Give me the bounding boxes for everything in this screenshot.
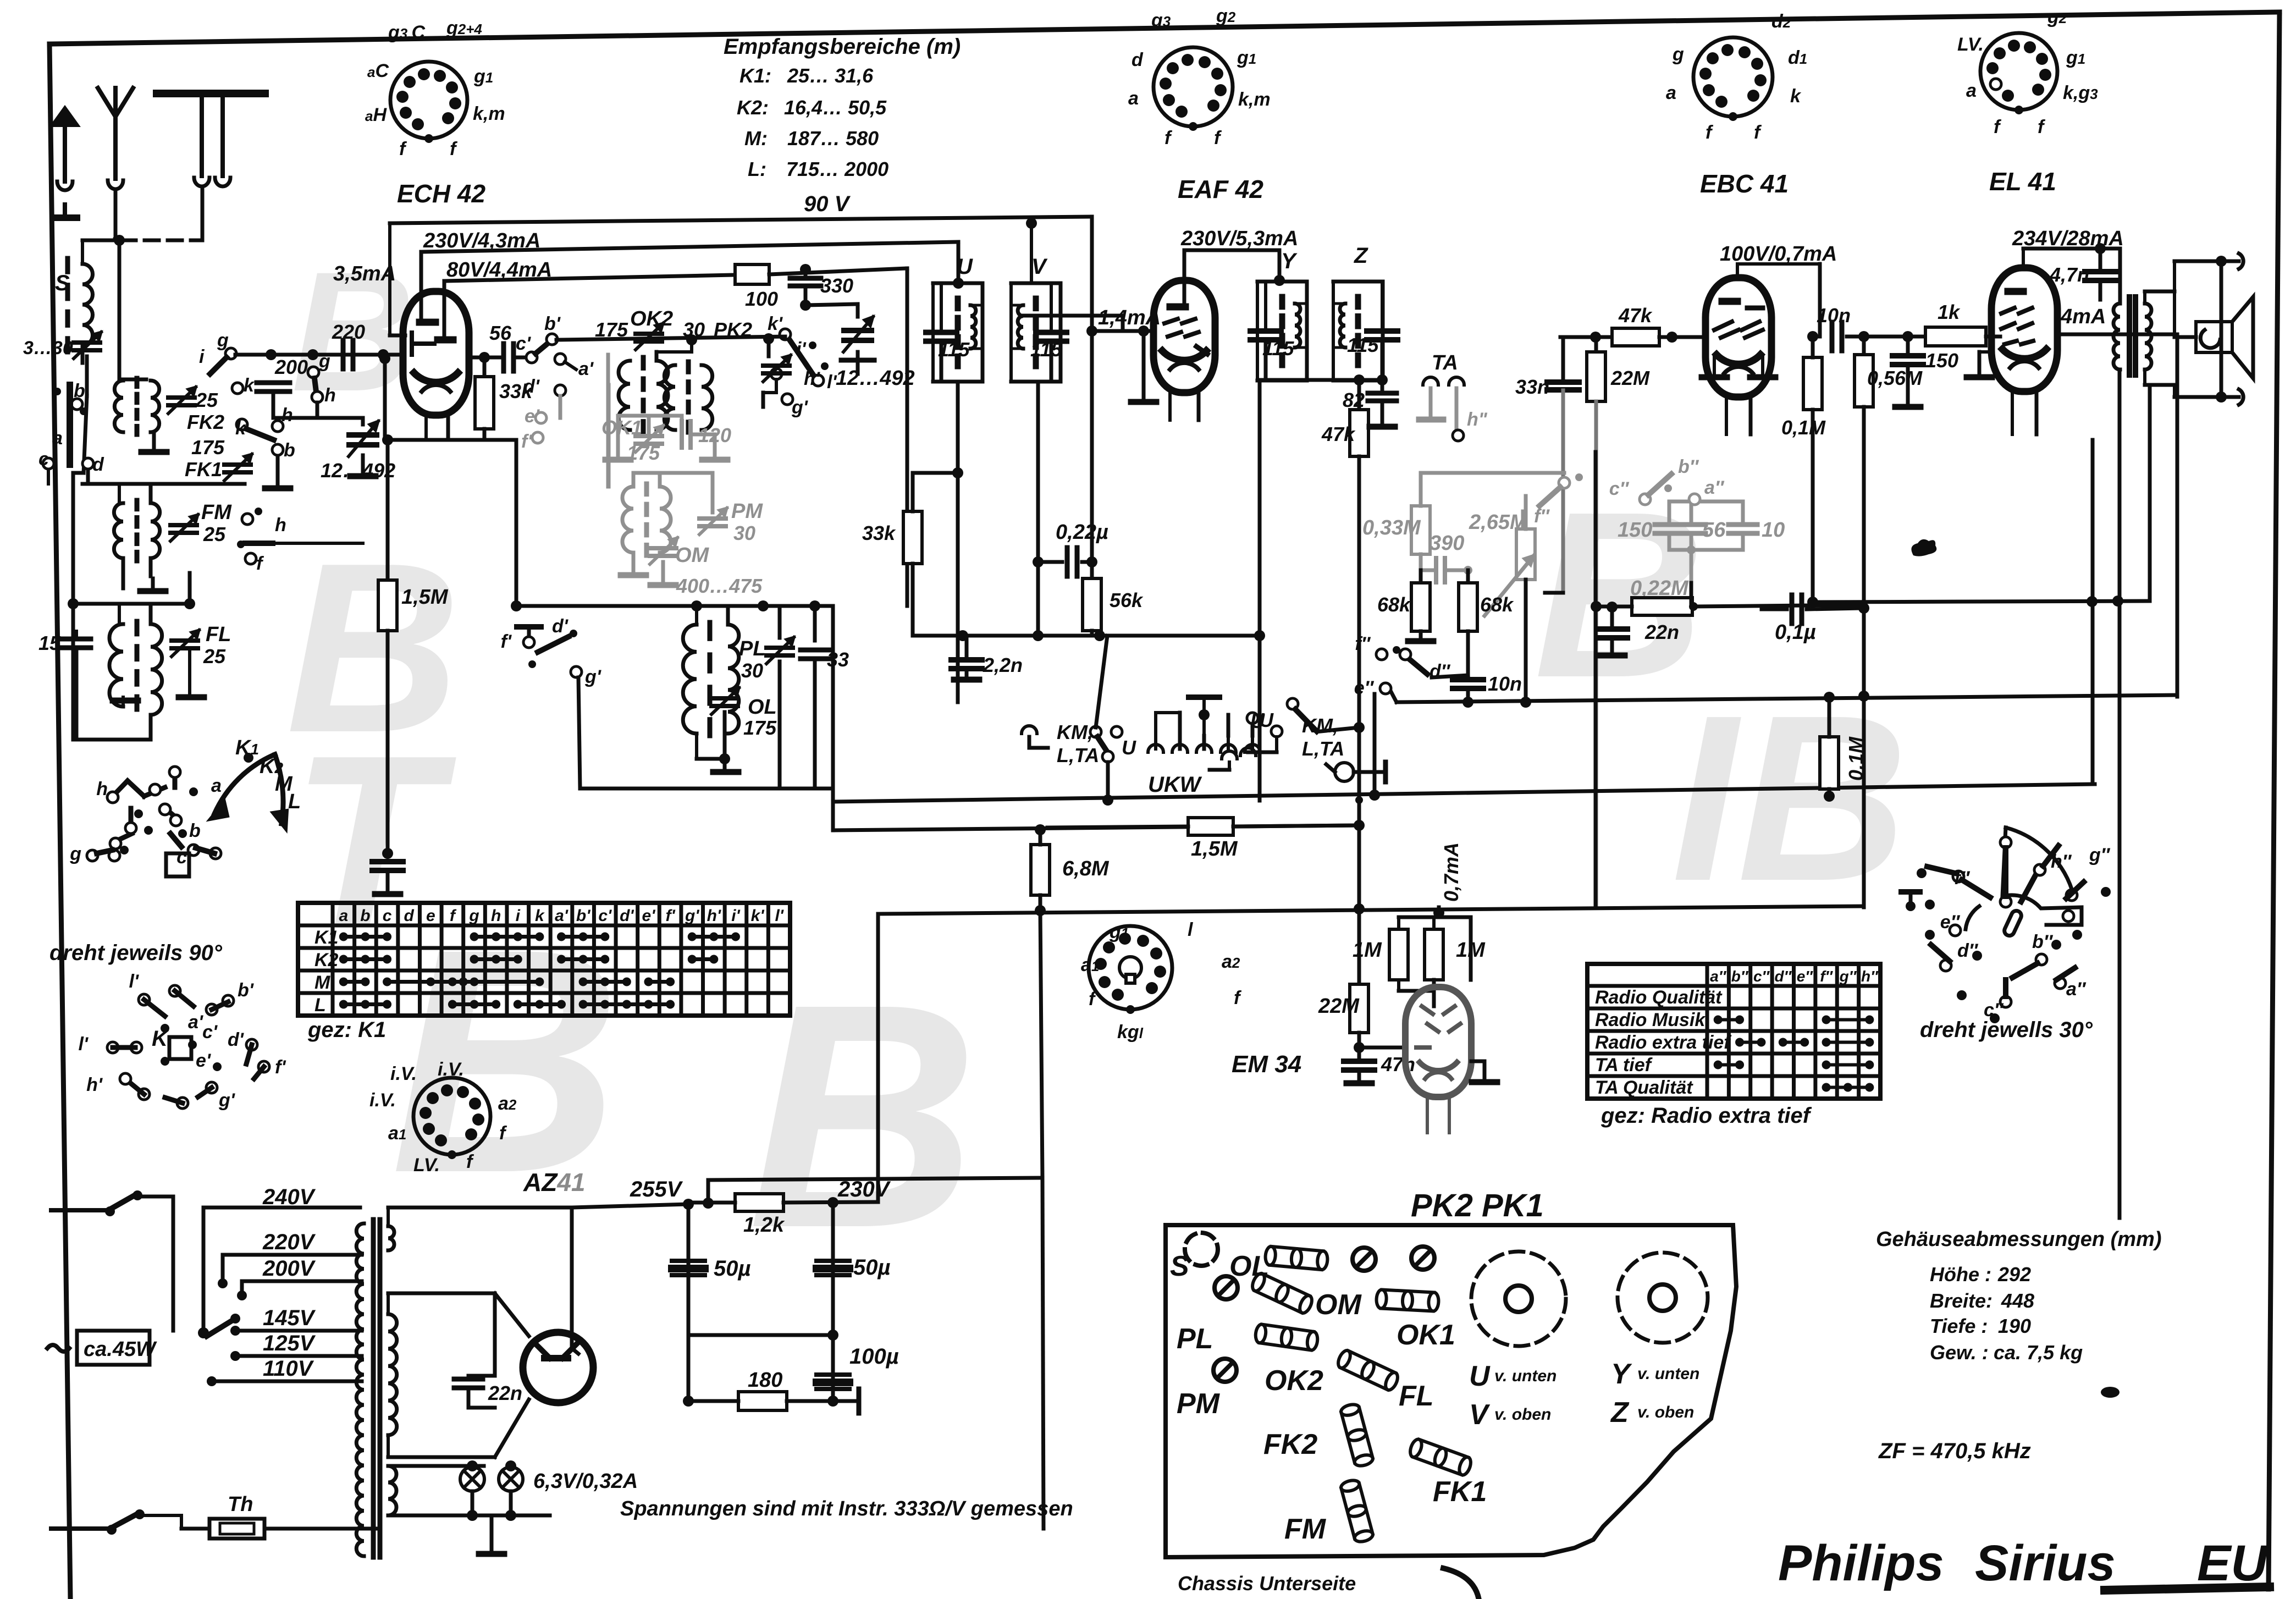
switch contact e	[242, 514, 253, 525]
svg-text:gez: Radio extra tief: gez: Radio extra tief	[1600, 1104, 1812, 1128]
svg-text:200V: 200V	[262, 1256, 316, 1281]
node FM bottom rail	[73, 602, 190, 606]
svg-text:33k: 33k	[499, 380, 533, 402]
svg-text:50µ: 50µ	[714, 1256, 751, 1281]
svg-text:OL: OL	[748, 696, 777, 719]
svg-text:e': e'	[525, 406, 540, 427]
svg-text:g3,C: g3,C	[388, 22, 425, 43]
svg-text:100µ: 100µ	[849, 1344, 899, 1369]
svg-text:Gehäuseabmessungen (mm): Gehäuseabmessungen (mm)	[1876, 1228, 2161, 1251]
svg-text:v. unten: v. unten	[1494, 1367, 1557, 1385]
socket EM34	[1089, 926, 1172, 1010]
svg-text:90 V: 90 V	[804, 192, 851, 216]
svg-text:l': l'	[775, 907, 783, 925]
transformer FL	[135, 621, 140, 634]
svg-text:Philips: Philips	[1778, 1535, 1944, 1591]
svg-text:TA Qualität: TA Qualität	[1595, 1077, 1693, 1098]
svg-text:g': g'	[218, 1090, 236, 1111]
ground PL OL	[719, 753, 730, 764]
power box ca45W	[77, 1331, 150, 1365]
ground 180	[833, 1399, 859, 1403]
trimmer PK2	[767, 339, 771, 356]
svg-text:FL: FL	[1399, 1380, 1434, 1412]
watermark	[286, 236, 1908, 1294]
svg-text:1,5M: 1,5M	[401, 586, 449, 609]
svg-text:h": h"	[1467, 409, 1488, 430]
svg-text:g: g	[217, 330, 229, 351]
FL wires	[123, 604, 124, 624]
svg-text:25: 25	[203, 523, 226, 545]
dashed coupling wire	[122, 239, 194, 242]
svg-text:OK2: OK2	[1265, 1365, 1323, 1397]
ground rotary right	[1909, 896, 1913, 904]
svg-text:e″: e″	[1354, 677, 1375, 698]
mains switch bottom	[51, 1526, 110, 1531]
svg-text:a: a	[211, 775, 222, 796]
selector arc K1 K2 M L	[214, 754, 275, 814]
svg-text:187… 580: 187… 580	[787, 127, 879, 150]
wire to FK2	[119, 378, 146, 382]
wires right returns	[1813, 601, 2150, 602]
capacitor 33	[813, 606, 817, 641]
svg-text:115: 115	[1030, 338, 1062, 361]
resistor 0,1M bottom right	[1820, 737, 1839, 789]
trimmer FK2 25	[168, 395, 195, 400]
svg-text:FK1: FK1	[1433, 1476, 1487, 1508]
wire 90V drop to osc feed	[1090, 217, 1094, 578]
svg-text:PL: PL	[1177, 1323, 1213, 1355]
riser e-dprime to rail A	[1373, 694, 1377, 795]
svg-text:c: c	[383, 907, 392, 925]
oscillator transformer PL OL	[708, 622, 713, 638]
svg-text:a: a	[1128, 88, 1139, 109]
antenna symbol	[98, 88, 133, 117]
svg-text:PK2 PK1: PK2 PK1	[1411, 1188, 1544, 1223]
svg-text:K1: K1	[314, 927, 338, 948]
wire osc box right edge	[831, 606, 835, 830]
svg-text:AZ41: AZ41	[523, 1168, 586, 1197]
tone contact table	[1587, 964, 1880, 1099]
gray OK1 section	[521, 385, 731, 487]
resistor 22M EM34	[1350, 984, 1368, 1033]
svg-text:30: 30	[733, 522, 755, 544]
svg-text:M:: M:	[744, 127, 768, 150]
svg-text:56: 56	[1702, 519, 1726, 542]
tube socket EAF42	[1153, 47, 1233, 126]
svg-text:c″: c″	[1753, 968, 1770, 985]
osc transformer PK	[686, 362, 691, 372]
svg-text:0,22µ: 0,22µ	[1056, 521, 1108, 544]
svg-text:f″: f″	[1355, 633, 1371, 654]
resistor 68k left	[1419, 570, 1423, 583]
lever i-g	[210, 357, 227, 374]
svg-text:g″: g″	[1839, 968, 1857, 985]
switch contact d-prime2	[555, 385, 566, 396]
chassis screw 1	[1353, 1248, 1376, 1271]
svg-text:UKW: UKW	[1148, 773, 1202, 797]
svg-text:d: d	[404, 907, 415, 925]
svg-text:30: 30	[741, 659, 763, 682]
resistor 47k vertical	[1357, 380, 1361, 410]
svg-text:0,1M: 0,1M	[1845, 736, 1867, 781]
resistor 1,5M horizontal	[1188, 818, 1233, 835]
svg-text:b': b'	[544, 313, 561, 334]
svg-text:68k: 68k	[1480, 593, 1514, 616]
svg-text:1,5M: 1,5M	[1191, 837, 1238, 861]
svg-text:h: h	[324, 385, 336, 406]
trimmer 12-492 osc	[856, 304, 860, 317]
svg-text:g2: g2	[2047, 7, 2067, 27]
svg-text:g': g'	[791, 397, 809, 418]
svg-text:d″: d″	[1775, 968, 1792, 985]
heater ground	[495, 1515, 496, 1554]
svg-text:h: h	[275, 515, 286, 536]
svg-text:kgl: kgl	[1117, 1022, 1144, 1043]
svg-text:56: 56	[489, 322, 512, 344]
chassis screw 4	[1213, 1359, 1237, 1382]
svg-text:175: 175	[595, 318, 628, 341]
svg-text:g: g	[1672, 44, 1684, 65]
svg-text:a1: a1	[1081, 955, 1099, 975]
switch contact l-prime	[813, 375, 824, 386]
svg-text:LV.: LV.	[1957, 34, 1984, 55]
EAF42 cathode ground	[1138, 326, 1149, 337]
svg-text:i': i'	[731, 907, 740, 925]
svg-text:PM: PM	[731, 500, 763, 523]
svg-text:180: 180	[748, 1369, 782, 1392]
vertical 47k-22M EM34 feed	[1357, 456, 1361, 984]
switch contact h-dprime	[1453, 430, 1464, 441]
tube AZ41	[523, 1332, 593, 1403]
svg-text:l': l'	[827, 372, 837, 393]
mains switch top	[51, 1208, 108, 1212]
table row K2 links	[344, 957, 387, 961]
svg-text:FL: FL	[206, 623, 231, 646]
wire osc top rail	[516, 604, 833, 608]
svg-text:e': e'	[196, 1050, 212, 1071]
capacitor 2,2n	[965, 636, 969, 655]
node mixer output	[479, 352, 490, 363]
EAF42 anode lead	[1183, 250, 1186, 304]
resistor 1k	[1925, 327, 1986, 346]
trimmer FK1	[224, 462, 251, 467]
svg-text:K2:: K2:	[737, 96, 769, 119]
tube EBC41	[1706, 278, 1771, 397]
svg-text:22M: 22M	[1610, 367, 1650, 389]
svg-text:d″: d″	[1957, 940, 1979, 961]
svg-text:a': a'	[555, 907, 569, 925]
svg-text:400…475: 400…475	[676, 575, 763, 597]
svg-text:Radio Musik: Radio Musik	[1595, 1010, 1706, 1030]
wire U bottom	[956, 382, 960, 702]
svg-text:25: 25	[203, 645, 226, 668]
wire V bottom	[1036, 382, 1040, 636]
svg-text:240V: 240V	[262, 1185, 316, 1209]
svg-text:g': g'	[685, 907, 699, 925]
svg-text:c': c'	[516, 333, 532, 354]
resistor 1M right	[1425, 929, 1443, 980]
tube ECH42	[403, 291, 469, 415]
svg-text:K1:: K1:	[739, 64, 771, 87]
svg-text:c: c	[38, 449, 49, 470]
svg-text:Radio Qualität: Radio Qualität	[1595, 987, 1723, 1008]
chassis IF can U V	[1471, 1251, 1566, 1346]
socket AZ41	[413, 1078, 490, 1155]
wire osc bottom rail	[580, 787, 833, 791]
svg-text:a': a'	[188, 1012, 204, 1033]
svg-text:g: g	[468, 907, 479, 925]
svg-text:d: d	[1132, 49, 1144, 70]
riser KM switch	[1096, 636, 1107, 727]
switch contact h lower	[312, 392, 323, 402]
wire h to 1,5M column	[277, 542, 363, 545]
svg-text:30: 30	[683, 318, 705, 341]
ground under FK1	[276, 456, 280, 486]
speaker wires to terminals	[2144, 291, 2145, 292]
svg-text:M: M	[314, 972, 330, 993]
switch contact k2	[236, 419, 247, 430]
svg-text:1,2k: 1,2k	[743, 1214, 785, 1237]
svg-text:b: b	[189, 820, 201, 841]
EL41 cathode ground	[1979, 350, 1991, 354]
svg-text:L:: L:	[748, 158, 766, 180]
svg-text:c″: c″	[1609, 478, 1630, 499]
EM34 feed wire	[1107, 726, 1108, 913]
svg-text:b″: b″	[1731, 968, 1749, 985]
svg-text:f″: f″	[1534, 506, 1550, 527]
wire UKW bus	[1029, 746, 1048, 750]
resistor 100	[735, 264, 769, 284]
capacitor 22n tone	[1611, 606, 1613, 624]
svg-text:i.V.: i.V.	[369, 1090, 396, 1111]
svg-text:OK2: OK2	[630, 307, 673, 330]
svg-text:220V: 220V	[262, 1230, 316, 1254]
svg-text:PK2: PK2	[714, 318, 752, 341]
svg-text:PL: PL	[739, 637, 766, 660]
svg-text:U: U	[1250, 710, 1265, 732]
svg-text:FK1: FK1	[185, 458, 222, 481]
svg-text:a: a	[52, 428, 63, 449]
svg-text:gez: K1: gez: K1	[307, 1018, 386, 1042]
svg-text:0,56M: 0,56M	[1867, 367, 1923, 389]
svg-text:0,1µ: 0,1µ	[1775, 621, 1816, 644]
svg-text:OK1: OK1	[1397, 1319, 1455, 1351]
svg-text:d2: d2	[1771, 11, 1791, 32]
chassis OK2 coil	[1255, 1324, 1319, 1350]
node 1,4mA	[1086, 326, 1097, 337]
transformer FM	[135, 500, 140, 509]
wire rail A AVC	[833, 784, 2095, 802]
svg-text:v. oben: v. oben	[1637, 1403, 1694, 1421]
switch contact h-prime	[771, 368, 782, 379]
earth antenna symbol	[157, 90, 265, 97]
svg-text:Radio extra tief: Radio extra tief	[1595, 1032, 1732, 1053]
svg-text:h: h	[282, 405, 293, 426]
svg-text:EM 34: EM 34	[1232, 1051, 1301, 1078]
svg-text:Empfangsbereiche (m): Empfangsbereiche (m)	[724, 35, 961, 59]
svg-text:e: e	[426, 907, 435, 925]
svg-text:TA tief: TA tief	[1595, 1055, 1653, 1076]
svg-text:d: d	[92, 454, 104, 475]
AZ41 output lead	[558, 1403, 559, 1408]
EL41 grid lead	[1989, 335, 2000, 339]
wire U bottom branch	[952, 467, 963, 478]
capacitor 150	[1906, 337, 1910, 352]
svg-text:g2: g2	[1216, 5, 1236, 26]
resistor 56k	[1083, 578, 1101, 631]
svg-text:a″: a″	[1704, 477, 1725, 498]
svg-text:25… 31,6: 25… 31,6	[787, 64, 874, 87]
chassis FK1 coil	[1408, 1438, 1473, 1477]
svg-text:110V: 110V	[263, 1357, 314, 1381]
svg-text:d': d'	[228, 1029, 245, 1050]
anode lead2 80V	[443, 281, 446, 337]
EAF42 legs	[1168, 393, 1172, 420]
svg-text:U: U	[1469, 1360, 1491, 1392]
trimmer OK2 series	[636, 332, 662, 336]
resistor 47k horizontal	[1612, 328, 1659, 346]
svg-text:255V: 255V	[630, 1177, 683, 1201]
svg-text:v. oben: v. oben	[1494, 1405, 1551, 1424]
switch contact g	[225, 348, 236, 359]
resistor 1M left	[1389, 929, 1408, 980]
border frame	[49, 12, 2280, 44]
varcap 12-492 input	[349, 432, 377, 438]
switch contact b	[71, 399, 82, 410]
capacitor 47n left	[382, 848, 393, 859]
riser rail B to 6,8M	[1035, 824, 1046, 835]
svg-text:L: L	[314, 995, 326, 1016]
phone jack	[1335, 763, 1354, 781]
switch f-prime d-prime	[527, 627, 531, 637]
svg-text:33: 33	[827, 648, 849, 671]
svg-text:g3: g3	[1151, 10, 1171, 31]
wire mid node	[688, 1333, 833, 1337]
wire U top feed	[958, 283, 959, 285]
svg-text:a″: a″	[1710, 968, 1727, 985]
svg-text:k: k	[535, 907, 545, 925]
dipole antenna symbol	[52, 108, 78, 125]
trimmer FM 25	[170, 523, 197, 527]
vertical mixer to osc rail	[515, 440, 518, 606]
switch contact k	[232, 383, 243, 394]
capacitor 22n PSU	[468, 1293, 469, 1375]
resistor 1,5M left	[386, 440, 390, 580]
resistor 33k mixer	[483, 357, 487, 377]
capacitor 50u left	[672, 1259, 705, 1263]
svg-text:b″: b″	[2032, 931, 2054, 952]
svg-text:10: 10	[1762, 519, 1785, 542]
svg-text:10n: 10n	[1488, 672, 1522, 695]
svg-text:a1: a1	[388, 1123, 406, 1144]
switch f-dprime	[1376, 649, 1387, 660]
treble caps gray 150 56 10	[1609, 456, 1785, 583]
IF transformer Y	[1257, 280, 1307, 284]
svg-text:Breite:: Breite:	[1930, 1289, 1993, 1312]
vertical output return2	[2148, 385, 2152, 600]
switch contact h2	[272, 421, 283, 432]
table row M links	[344, 980, 366, 984]
pilot lamps	[460, 1467, 484, 1491]
AC tilde	[47, 1345, 69, 1352]
lever e-h	[245, 541, 273, 546]
trimmer PL	[778, 606, 782, 638]
svg-text:b: b	[284, 440, 295, 461]
chassis OK1 coil	[1376, 1289, 1439, 1311]
svg-text:B: B	[748, 938, 978, 1294]
svg-text:3,5mA: 3,5mA	[333, 262, 396, 285]
chassis OM coil	[1250, 1272, 1315, 1315]
wire down-left column	[73, 471, 84, 475]
riser A-B	[832, 801, 834, 802]
capacitor 10n tone	[1453, 677, 1483, 682]
svg-text:c: c	[176, 847, 187, 868]
grid leak wire	[383, 359, 387, 440]
svg-text:KM,: KM,	[1057, 721, 1093, 743]
svg-text:k,g3: k,g3	[2063, 82, 2098, 103]
svg-text:U: U	[957, 255, 973, 279]
svg-text:12…492: 12…492	[836, 367, 915, 390]
svg-text:g: g	[69, 843, 81, 864]
svg-text:175: 175	[743, 716, 777, 739]
svg-text:d1: d1	[1788, 47, 1807, 68]
svg-text:f″: f″	[1954, 868, 1970, 889]
lever k-h	[246, 429, 274, 440]
svg-text:292: 292	[1997, 1263, 2031, 1286]
svg-text:a: a	[1666, 82, 1676, 103]
output transformer primary leads	[2118, 249, 2122, 304]
svg-text:6,8M: 6,8M	[1062, 857, 1110, 880]
svg-text:OM: OM	[1315, 1289, 1362, 1321]
svg-text:Z: Z	[1610, 1397, 1630, 1429]
switch lever c-b	[536, 343, 549, 354]
ground FL right	[188, 648, 191, 694]
switch lever k-l	[790, 340, 815, 377]
svg-text:i: i	[199, 346, 205, 367]
svg-text:448: 448	[2001, 1289, 2034, 1312]
vertical EBC41 grid feed	[1594, 452, 1598, 907]
switch bar	[67, 385, 73, 465]
vertical feed right of 330	[906, 268, 909, 606]
svg-text:g': g'	[584, 666, 602, 687]
rotary switch diagram left lower	[139, 994, 150, 1005]
resistor 6,8M	[1031, 845, 1050, 895]
trimmer OM	[650, 546, 676, 550]
svg-text:0,1M: 0,1M	[1781, 416, 1826, 439]
switch contact b2	[272, 444, 283, 455]
resistor 0,33M	[1411, 506, 1430, 554]
wire 1M feed 0,7mA	[1433, 907, 1444, 918]
svg-text:125V: 125V	[263, 1331, 316, 1355]
wire to Y	[1278, 250, 1282, 280]
svg-text:100: 100	[745, 288, 778, 310]
svg-text:h: h	[491, 907, 501, 925]
oscillator gray box PM OM	[608, 355, 763, 597]
svg-text:f″: f″	[1820, 968, 1833, 985]
svg-text:EU: EU	[2197, 1535, 2269, 1591]
svg-text:33n: 33n	[1515, 376, 1549, 398]
svg-text:h': h'	[804, 368, 821, 389]
trimmer FL 25	[172, 638, 198, 643]
EL41 legs	[2011, 392, 2014, 434]
svg-text:190: 190	[1998, 1315, 2031, 1337]
IF transformer V	[1011, 282, 1061, 285]
svg-text:FM: FM	[201, 501, 232, 524]
svg-text:ca.45W: ca.45W	[84, 1338, 157, 1361]
pot bottom to rail D	[1524, 580, 1528, 702]
svg-text:IB: IB	[1671, 666, 1908, 930]
bracket box 1M	[1399, 916, 1471, 919]
